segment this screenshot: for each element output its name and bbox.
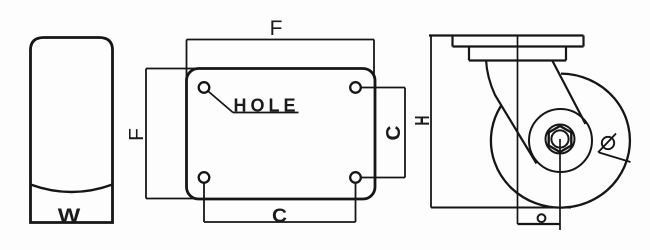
svg-text:C: C [272, 206, 287, 227]
dimension C right: top extension [360, 87, 405, 89]
dimension C right: line [404, 88, 406, 178]
dimension F left: line [145, 69, 147, 199]
mounting hole top-left [199, 82, 210, 93]
mounting hole bottom-right [350, 172, 361, 183]
dimension H: line [430, 36, 432, 208]
HOLE callout leader [209, 92, 234, 113]
svg-text:HOLE: HOLE [234, 95, 300, 115]
diameter symbol circle [602, 137, 614, 149]
fork right leg [552, 60, 586, 124]
wheel tread crown arc [31, 185, 113, 193]
dimension F top: line [187, 39, 375, 41]
dimension F top: right extension [373, 40, 375, 79]
mounting hole bottom-left [199, 172, 210, 183]
svg-text:F: F [270, 17, 283, 40]
caster top plate tier1 right edge [582, 36, 584, 47]
wheel circle (side view) [491, 74, 630, 208]
mounting hole top-right [350, 82, 361, 93]
offset dimension label o [538, 214, 546, 222]
caster top plate tier1 bottom [453, 45, 584, 47]
svg-text:C: C [383, 126, 405, 141]
dimension F top: left extension [186, 40, 188, 79]
diameter leader line [599, 153, 631, 163]
dimension C bottom: left extension [203, 183, 205, 223]
ground line [431, 207, 571, 209]
dimension C right: bottom extension [360, 177, 405, 179]
caster top plate surface line [429, 34, 584, 36]
axle hex nut [549, 126, 572, 152]
svg-text:W: W [58, 206, 81, 227]
diameter symbol slash [598, 134, 616, 153]
dimension C bottom: line [204, 221, 356, 223]
hub bore circle [551, 130, 568, 147]
HOLE callout shelf [233, 112, 299, 114]
svg-text:H: H [412, 116, 434, 126]
caster top plate tier1 left edge [451, 36, 453, 47]
svg-text:F: F [126, 128, 148, 141]
wheel axis line down [559, 139, 561, 230]
wheel front view outline [31, 38, 113, 223]
hub outer ring [546, 125, 575, 154]
dimension C bottom: right extension [355, 183, 357, 223]
fork yoke circle [529, 109, 592, 172]
offset dimension bottom line [518, 223, 561, 225]
dimension F left: bottom extension [146, 198, 195, 200]
swivel housing tier2 left edge [468, 47, 470, 61]
swivel housing tier2 right edge [565, 47, 567, 61]
fork left leg [486, 60, 537, 164]
dimension F left: top extension [146, 68, 195, 70]
swivel housing tier2 bottom [469, 59, 566, 61]
kingpin centerline [517, 36, 519, 225]
top plate outline (plan view) [187, 69, 376, 200]
